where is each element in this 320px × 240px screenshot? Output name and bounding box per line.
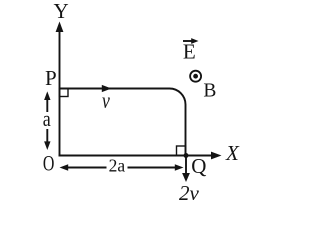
svg-text:2a: 2a: [109, 155, 126, 175]
svg-text:X: X: [225, 141, 240, 165]
svg-text:B: B: [203, 80, 216, 101]
svg-text:a: a: [43, 106, 51, 131]
svg-text:O: O: [43, 151, 55, 176]
svg-text:E: E: [183, 39, 196, 63]
svg-text:P: P: [45, 66, 57, 90]
svg-text:Y: Y: [54, 0, 69, 23]
svg-text:v: v: [102, 88, 110, 113]
svg-text:2v: 2v: [179, 181, 200, 205]
svg-text:Q: Q: [191, 154, 206, 178]
